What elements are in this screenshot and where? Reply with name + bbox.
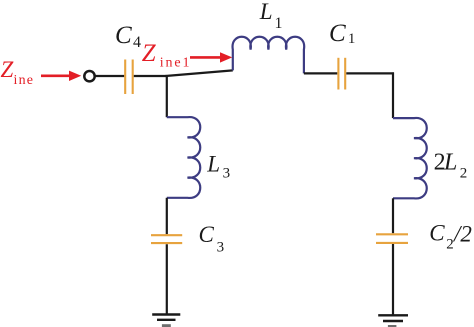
svg-text:L: L — [259, 0, 273, 24]
wire L3 to C3 — [166, 198, 168, 234]
svg-text:ine: ine — [14, 73, 35, 88]
svg-text:3: 3 — [217, 240, 225, 256]
svg-text:ine1: ine1 — [160, 56, 192, 71]
inductor 2L2 — [393, 118, 427, 198]
svg-text:C: C — [329, 20, 346, 47]
inductor L3 — [167, 117, 200, 198]
label 2L2 — [434, 149, 468, 181]
arrow Zine pointing to input terminal — [41, 71, 81, 81]
label Zine1 — [142, 40, 192, 71]
svg-text:1: 1 — [275, 15, 283, 32]
wire C4 to node Zine1 junction — [134, 75, 167, 77]
svg-text:C: C — [199, 222, 215, 247]
svg-text:Z: Z — [142, 40, 157, 67]
svg-text:C: C — [429, 221, 445, 246]
wire node Zine1 to L1 (diagonal) — [166, 70, 233, 76]
svg-text:1: 1 — [348, 31, 356, 47]
wire input terminal to C4 — [95, 75, 124, 77]
wire C1 to right corner — [346, 72, 394, 74]
ground right — [378, 315, 408, 327]
capacitor C2/2 — [376, 234, 408, 243]
svg-text:L: L — [206, 151, 220, 176]
label L3 — [206, 151, 230, 181]
label C3 — [199, 222, 225, 256]
wire 2L2 to C2/2 — [392, 198, 394, 233]
svg-text:2: 2 — [460, 165, 468, 181]
capacitor C3 — [151, 235, 182, 243]
label C1 — [329, 20, 355, 47]
wire right corner down to 2L2 — [392, 72, 394, 118]
svg-text:3: 3 — [223, 165, 231, 181]
svg-text:/2: /2 — [452, 221, 472, 246]
svg-text:C: C — [115, 22, 132, 49]
label C2/2 — [429, 221, 472, 253]
arrow Zine1 pointing to L1 input — [190, 52, 232, 62]
wire L1 to C1 — [304, 72, 337, 74]
wire node Zine1 down to L3 — [166, 75, 168, 117]
ground left — [152, 315, 180, 327]
capacitor C1 — [338, 58, 345, 90]
node input terminal circle — [84, 71, 94, 81]
svg-text:2: 2 — [446, 237, 454, 253]
wire C3 to ground — [166, 244, 168, 314]
svg-text:Z: Z — [1, 57, 14, 82]
capacitor C4 — [125, 60, 133, 95]
wire C2/2 to ground — [392, 244, 394, 315]
label Zine (input impedance) — [1, 57, 35, 88]
svg-text:L: L — [443, 149, 457, 175]
inductor L1 — [233, 37, 305, 74]
svg-text:4: 4 — [133, 34, 141, 51]
label C4 — [115, 22, 141, 51]
label L1 — [259, 0, 283, 32]
